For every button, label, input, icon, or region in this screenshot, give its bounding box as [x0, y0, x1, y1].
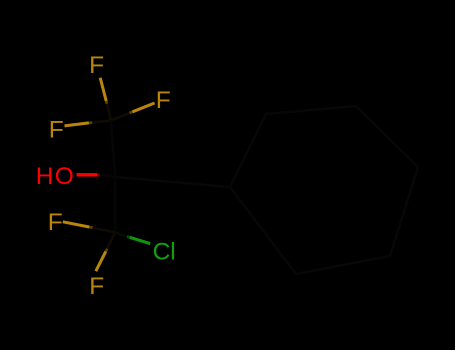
wire: C2 to ring dark: [115, 177, 230, 187]
bond F1 to C1 (olive half): [100, 78, 106, 101]
wire: dark half-bond F_b to C3: [106, 233, 115, 252]
wire: C1-C2 bond dark: [111, 121, 115, 178]
wire: dark half-bond F_ur to C1: [111, 112, 133, 121]
svg-text:O: O: [55, 163, 74, 190]
wire: dark half-bond F_l to C3: [89, 227, 115, 233]
svg-text:F: F: [89, 52, 104, 79]
svg-text:F: F: [48, 209, 63, 236]
wire: dark half-bond O to C2: [97, 175, 115, 177]
wire: dark half-bond Cl to C3: [115, 233, 130, 238]
bond F5 to C3 (olive half): [96, 252, 106, 272]
bond F4 to C3 (olive half): [63, 222, 89, 227]
bond C1 to F2 (olive half): [133, 103, 155, 112]
benzene ring faint: [230, 106, 418, 274]
svg-text:Cl: Cl: [153, 238, 176, 265]
bond F3 to C1 (olive half): [65, 123, 89, 126]
svg-text:F: F: [156, 87, 171, 114]
bond HO to C2 (red half): [77, 173, 98, 176]
wire: C2-C3 bond dark: [114, 177, 117, 233]
wire: dark half-bond F_top to C1: [106, 101, 111, 121]
svg-text:F: F: [49, 116, 64, 143]
svg-text:F: F: [89, 273, 104, 300]
svg-text:H: H: [36, 163, 54, 190]
wire: dark half-bond F_ml to C1: [89, 121, 111, 123]
bond C3 to Cl (green half): [130, 237, 150, 243]
